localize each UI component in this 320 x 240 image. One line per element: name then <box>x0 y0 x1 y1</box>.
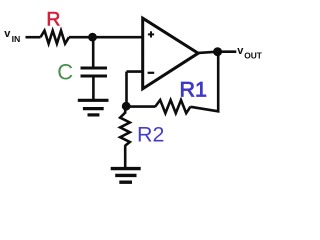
wire feedback vertical to node B <box>125 72 128 107</box>
svg-text:OUT: OUT <box>244 51 263 61</box>
wire node B to R2 <box>124 106 127 113</box>
resistor R2 <box>120 113 130 146</box>
svg-text:v: v <box>4 28 11 40</box>
node vIN label <box>4 28 20 44</box>
wire op-amp output <box>197 52 237 53</box>
wire R2 to ground <box>124 145 127 167</box>
op-amp plus pin mark <box>148 31 154 37</box>
wire capacitor to ground <box>92 76 95 100</box>
svg-text:R: R <box>46 8 60 30</box>
op-amp minus pin mark <box>148 72 155 74</box>
ground (capacitor) <box>78 100 109 115</box>
svg-text:R1: R1 <box>180 77 207 101</box>
node junction A (input node) <box>88 33 97 42</box>
svg-text:IN: IN <box>12 34 21 44</box>
resistor R1 <box>155 100 190 113</box>
wire input vIN to R <box>26 36 41 39</box>
wire R1 to output vertical <box>191 52 219 112</box>
node junction B (feedback node) <box>122 102 131 111</box>
node vOUT label <box>237 45 262 61</box>
ground (R2) <box>111 169 141 183</box>
wire node B to R1 <box>126 105 155 108</box>
op-amp U1 <box>143 18 199 89</box>
wire R to op-amp + input <box>69 36 143 39</box>
svg-text:R2: R2 <box>137 122 164 146</box>
wire op-amp minus input stub <box>127 70 143 73</box>
node junction C (output node) <box>213 47 222 56</box>
svg-text:C: C <box>57 60 73 85</box>
resistor R <box>41 31 70 44</box>
capacitor C <box>81 68 108 76</box>
wire node A down to capacitor <box>92 37 95 66</box>
